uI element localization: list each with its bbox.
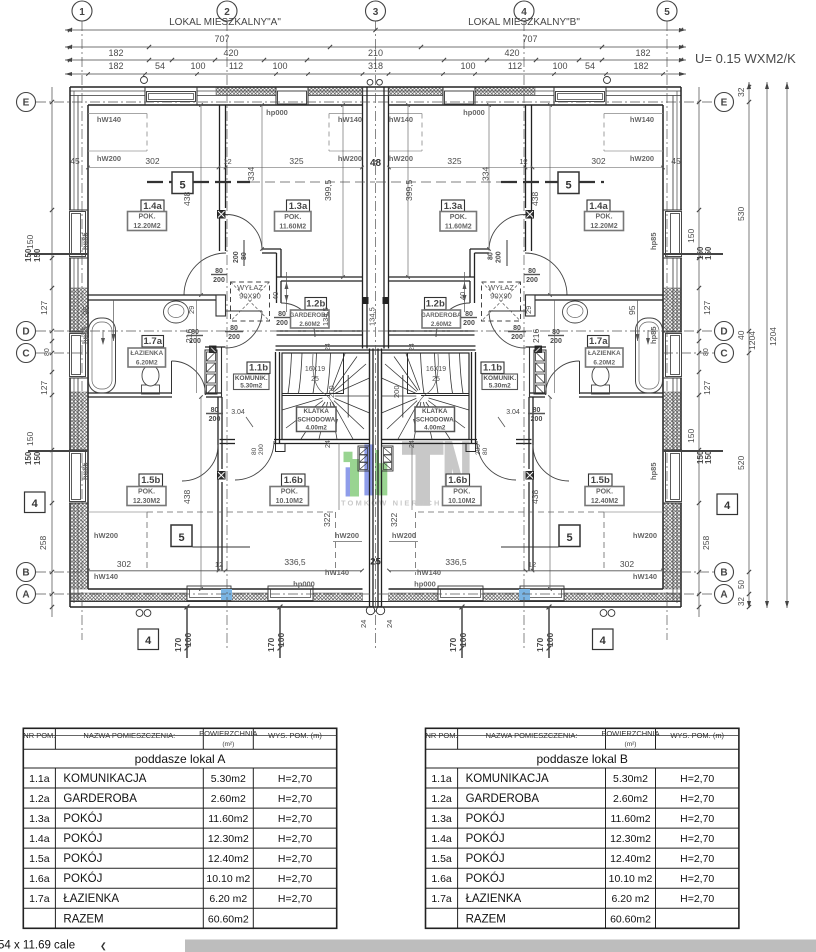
svg-text:182: 182 [108, 48, 123, 58]
svg-text:hW140: hW140 [94, 572, 118, 581]
svg-text:24: 24 [409, 440, 416, 448]
svg-text:3: 3 [373, 7, 379, 18]
garderoba top wall [389, 276, 475, 278]
svg-text:1.3a: 1.3a [289, 201, 308, 212]
svg-text:200: 200 [511, 334, 523, 341]
svg-text:302: 302 [591, 156, 605, 166]
svg-text:11.60M2: 11.60M2 [445, 224, 472, 231]
svg-text:POWIERZCHNIA: POWIERZCHNIA [199, 729, 257, 738]
flue blocks bottom [358, 446, 370, 471]
axis bubbles top [72, 1, 92, 21]
svg-text:E: E [23, 98, 30, 109]
svg-text:1.1b: 1.1b [249, 363, 268, 374]
svg-text:707: 707 [522, 34, 537, 44]
svg-text:200: 200 [258, 444, 265, 455]
room labels [141, 200, 164, 212]
svg-text:438: 438 [182, 192, 192, 206]
svg-text:POKÓJ: POKÓJ [466, 812, 505, 825]
svg-text:H=2,70: H=2,70 [680, 833, 714, 845]
top window hp000 [443, 88, 475, 104]
svg-text:302: 302 [145, 156, 159, 166]
shaft top flue box [535, 346, 542, 353]
blue entry marker [519, 589, 530, 600]
svg-text:2.60M2: 2.60M2 [431, 321, 452, 328]
svg-text:707: 707 [214, 34, 229, 44]
svg-text:80: 80 [488, 252, 495, 260]
svg-text:325: 325 [289, 156, 303, 166]
svg-text:95: 95 [81, 305, 91, 315]
svg-text:200: 200 [550, 338, 562, 345]
svg-text:poddasze lokal B: poddasze lokal B [536, 752, 627, 766]
knee wall dashed contour low [147, 511, 336, 513]
svg-text:hW200: hW200 [392, 531, 416, 540]
svg-text:H=2,70: H=2,70 [680, 893, 714, 905]
flue blocks bottom [382, 446, 394, 471]
blue entry marker [221, 589, 232, 600]
svg-text:1.6b: 1.6b [284, 475, 303, 486]
svg-text:45: 45 [671, 156, 681, 166]
svg-text:1.2a: 1.2a [29, 793, 50, 805]
bottom wall hatch [564, 593, 680, 601]
bath door leaf+arc [171, 361, 173, 394]
sink [563, 301, 588, 323]
svg-text:hW140: hW140 [630, 115, 654, 124]
svg-text:D: D [720, 327, 727, 338]
svg-text:SCHODOWA: SCHODOWA [416, 416, 454, 423]
svg-text:438: 438 [530, 490, 540, 504]
svg-text:150: 150 [704, 450, 713, 464]
svg-text:POK.: POK. [450, 214, 467, 221]
section boxes 4 [25, 492, 46, 513]
bath fixtures: tub [89, 318, 116, 393]
svg-text:112: 112 [508, 61, 522, 71]
svg-text:336,5: 336,5 [284, 557, 306, 567]
svg-text:200: 200 [213, 277, 225, 284]
svg-text:5.30m2: 5.30m2 [489, 383, 511, 390]
vent circle top-left [141, 77, 148, 84]
party wall black boxes [363, 297, 369, 304]
svg-text:29: 29 [524, 306, 533, 314]
svg-text:POWIERZCHNIA: POWIERZCHNIA [601, 729, 659, 738]
svg-text:1.2b: 1.2b [426, 299, 445, 310]
svg-text:50: 50 [737, 580, 746, 589]
wall above shaft/stairs entry [205, 346, 226, 348]
svg-text:1.3a: 1.3a [444, 201, 463, 212]
shaft top flue box [210, 346, 217, 353]
wylaz dashed box [482, 282, 521, 321]
svg-text:150: 150 [686, 229, 696, 243]
svg-text:5: 5 [178, 532, 184, 544]
svg-text:200: 200 [463, 320, 475, 327]
svg-text:100: 100 [183, 633, 193, 647]
wall 1.4a/1.3a x222 [531, 105, 533, 251]
svg-text:hp000: hp000 [463, 108, 485, 117]
svg-text:1.5a: 1.5a [431, 853, 452, 865]
svg-text:200: 200 [228, 334, 240, 341]
svg-text:1.4a: 1.4a [29, 833, 50, 845]
svg-text:24: 24 [325, 440, 332, 448]
svg-text:GARDEROBA: GARDEROBA [63, 793, 137, 805]
door arc to corridor [226, 214, 263, 250]
svg-text:54: 54 [155, 61, 165, 71]
svg-text:POK.: POK. [596, 489, 613, 496]
bottom status bar [185, 940, 816, 952]
bath top wall [88, 294, 226, 296]
svg-text:POK.: POK. [281, 489, 298, 496]
svg-text:B: B [22, 568, 29, 579]
svg-text:1.6b: 1.6b [448, 475, 467, 486]
svg-text:KOMUNIK.: KOMUNIK. [483, 375, 516, 382]
svg-text:C: C [720, 349, 727, 360]
svg-text:(m²): (m²) [222, 741, 234, 748]
door arc into 1.5b [182, 445, 218, 481]
svg-text:1.3a: 1.3a [431, 813, 452, 825]
svg-text:200: 200 [209, 416, 221, 423]
door 1.3a-corridor leaf+arc [489, 310, 526, 312]
left wall hatch [664, 288, 681, 332]
svg-text:POK.: POK. [284, 214, 301, 221]
garderoba left wall [276, 277, 278, 303]
svg-text:80: 80 [44, 348, 51, 356]
svg-text:200: 200 [531, 416, 543, 423]
svg-text:100: 100 [272, 61, 287, 71]
svg-text:325: 325 [447, 156, 461, 166]
svg-text:100: 100 [552, 61, 567, 71]
svg-text:H=2,70: H=2,70 [680, 873, 714, 885]
svg-text:16X19: 16X19 [426, 366, 446, 373]
svg-text:530: 530 [736, 207, 746, 221]
svg-text:25: 25 [370, 557, 381, 568]
svg-text:399,5: 399,5 [323, 179, 333, 201]
sink [164, 301, 189, 323]
svg-text:1.7a: 1.7a [589, 336, 608, 347]
svg-text:182: 182 [635, 48, 650, 58]
wall 1.4a/1.3a x222 [219, 105, 221, 251]
bottom wall hatch [71, 593, 187, 601]
stairs [475, 352, 477, 443]
building outer walls [70, 86, 681, 88]
svg-text:150: 150 [704, 246, 713, 260]
bottom windows/radiators [520, 586, 564, 601]
svg-text:H=2,70: H=2,70 [278, 813, 312, 825]
wylaz dashed box [231, 282, 270, 321]
svg-text:hW140: hW140 [338, 115, 362, 124]
svg-text:POKÓJ: POKÓJ [466, 852, 505, 865]
svg-text:54: 54 [585, 61, 595, 71]
svg-text:134,5: 134,5 [368, 307, 377, 326]
svg-text:90X90: 90X90 [239, 292, 261, 301]
svg-text:16X19: 16X19 [305, 366, 325, 373]
svg-text:1.1a: 1.1a [29, 773, 50, 785]
svg-text:100: 100 [545, 633, 555, 647]
svg-text:200: 200 [526, 277, 538, 284]
svg-text:1.5a: 1.5a [29, 853, 50, 865]
stairs [275, 352, 277, 443]
svg-text:12.30m2: 12.30m2 [610, 833, 651, 845]
svg-text:GARDEROBA: GARDEROBA [466, 793, 540, 805]
wall above shaft/stairs entry [526, 346, 547, 348]
svg-text:24: 24 [359, 620, 368, 628]
svg-text:2.60m2: 2.60m2 [613, 793, 648, 805]
svg-text:60.60m2: 60.60m2 [610, 913, 651, 925]
svg-text:210: 210 [368, 48, 383, 58]
knee wall contour top [88, 113, 147, 115]
svg-text:5: 5 [179, 180, 185, 192]
svg-text:200: 200 [189, 338, 201, 345]
svg-text:hp85: hp85 [649, 232, 658, 250]
svg-text:ŁAZIENKA: ŁAZIENKA [466, 893, 522, 905]
svg-text:hp85: hp85 [81, 462, 90, 480]
svg-text:hp000: hp000 [266, 108, 288, 117]
svg-text:POKÓJ: POKÓJ [466, 832, 505, 845]
svg-text:1: 1 [79, 7, 85, 18]
svg-text:H=2,70: H=2,70 [278, 853, 312, 865]
svg-text:182: 182 [108, 61, 123, 71]
svg-text:1.4a: 1.4a [431, 833, 452, 845]
svg-text:438: 438 [530, 192, 540, 206]
svg-text:12: 12 [528, 560, 536, 569]
svg-text:5.30m2: 5.30m2 [240, 383, 262, 390]
svg-text:hW200: hW200 [630, 154, 654, 163]
vent circles bottom [608, 610, 615, 617]
svg-text:150: 150 [33, 248, 42, 262]
svg-text:1.4a: 1.4a [589, 201, 608, 212]
svg-text:1.5b: 1.5b [591, 475, 610, 486]
svg-text:170: 170 [173, 638, 183, 652]
svg-text:H=2,70: H=2,70 [278, 793, 312, 805]
door hinge marker [218, 211, 226, 219]
shaft with flues [205, 350, 217, 394]
svg-text:LOKAL MIESZKALNY"B": LOKAL MIESZKALNY"B" [468, 17, 580, 28]
top wall hatch [475, 88, 535, 96]
corridor door arc [477, 441, 516, 480]
interior dim lines [200, 105, 202, 295]
svg-text:127: 127 [702, 381, 712, 395]
axis bubbles left [17, 93, 36, 112]
bottom windows/radiators [187, 586, 231, 601]
garderoba door arc [436, 303, 470, 337]
bath door leaf+arc [579, 361, 581, 394]
svg-text:2.60m2: 2.60m2 [211, 793, 246, 805]
left windows [69, 210, 86, 258]
bottom dims [186, 607, 188, 658]
svg-text:D: D [22, 327, 29, 338]
svg-text:200: 200 [327, 385, 336, 398]
svg-text:POK.: POK. [595, 214, 612, 221]
svg-text:POKÓJ: POKÓJ [63, 872, 102, 885]
svg-text:1204: 1204 [747, 331, 757, 350]
door hinge marker [526, 211, 534, 219]
garderoba/bath bottom wall [389, 330, 475, 332]
svg-text:1.5b: 1.5b [141, 475, 160, 486]
svg-text:80: 80 [482, 447, 489, 455]
top window 1 [554, 88, 606, 104]
svg-text:336,5: 336,5 [445, 557, 467, 567]
svg-text:40: 40 [736, 330, 746, 340]
svg-text:POK.: POK. [453, 489, 470, 496]
svg-text:H=2,70: H=2,70 [680, 813, 714, 825]
grid vertical dash-dot lines [81, 21, 83, 640]
left dimension lines [51, 87, 53, 617]
svg-text:RAZEM: RAZEM [63, 913, 103, 925]
svg-text:334: 334 [481, 167, 491, 181]
svg-text:170: 170 [266, 638, 276, 652]
svg-text:5.30m2: 5.30m2 [613, 773, 648, 785]
party top vent circles [367, 79, 373, 85]
axis bubbles right [715, 93, 734, 112]
svg-text:hW140: hW140 [417, 568, 441, 577]
party wall black boxes [383, 297, 389, 304]
svg-text:H=2,70: H=2,70 [278, 833, 312, 845]
svg-text:150: 150 [33, 451, 42, 465]
door arc into 1.4a [525, 253, 567, 295]
svg-text:40: 40 [271, 292, 280, 300]
svg-text:1.1b: 1.1b [483, 363, 502, 374]
svg-text:5: 5 [565, 180, 571, 192]
svg-text:4.00m2: 4.00m2 [306, 424, 328, 431]
svg-text:100: 100 [276, 633, 286, 647]
svg-text:150: 150 [24, 451, 33, 465]
svg-text:5: 5 [566, 532, 572, 544]
drain arrow [647, 330, 649, 343]
svg-text:RAZEM: RAZEM [466, 913, 506, 925]
svg-text:12: 12 [215, 560, 223, 569]
svg-text:80: 80 [251, 447, 258, 455]
svg-text:3.04: 3.04 [506, 409, 520, 416]
top wall hatch [216, 88, 276, 96]
svg-text:KLATKA: KLATKA [422, 408, 448, 415]
top window hp000 [276, 88, 308, 104]
svg-text:2.60M2: 2.60M2 [299, 321, 320, 328]
svg-text:12: 12 [223, 157, 231, 166]
svg-text:25: 25 [432, 376, 440, 383]
vent circles party bottom [366, 606, 374, 614]
svg-text:12.20M2: 12.20M2 [133, 223, 160, 230]
svg-text:H=2,70: H=2,70 [680, 793, 714, 805]
svg-text:hp85: hp85 [81, 232, 90, 250]
section line 5 bottom [171, 525, 192, 547]
toilet [142, 385, 160, 394]
svg-text:12.40m2: 12.40m2 [208, 853, 249, 865]
svg-text:3.04: 3.04 [231, 409, 245, 416]
svg-text:1.2a: 1.2a [431, 793, 452, 805]
svg-text:H=2,70: H=2,70 [680, 773, 714, 785]
svg-text:hW200: hW200 [94, 531, 118, 540]
garderoba top wall [277, 276, 363, 278]
svg-text:150: 150 [686, 429, 696, 443]
svg-text:POKÓJ: POKÓJ [63, 832, 102, 845]
svg-text:SCHODOWA: SCHODOWA [297, 416, 335, 423]
svg-text:B: B [720, 568, 727, 579]
svg-text:4.00m2: 4.00m2 [424, 424, 446, 431]
svg-text:11.60m2: 11.60m2 [610, 813, 650, 825]
svg-text:1.6a: 1.6a [29, 873, 50, 885]
svg-text:11.60m2: 11.60m2 [208, 813, 248, 825]
wall 1.5b/1.6b [217, 397, 219, 571]
svg-text:200: 200 [233, 251, 240, 263]
door arc into 1.5b [533, 445, 569, 481]
svg-text:10.10 m2: 10.10 m2 [609, 873, 653, 885]
svg-text:1.7a: 1.7a [431, 893, 452, 905]
svg-text:10.10 m2: 10.10 m2 [206, 873, 250, 885]
svg-text:hp000: hp000 [293, 580, 315, 589]
svg-text:(m²): (m²) [625, 741, 637, 748]
svg-text:54 x 11.69 cale: 54 x 11.69 cale [0, 940, 75, 952]
svg-text:ŁAZIENKA: ŁAZIENKA [130, 350, 163, 357]
svg-text:182: 182 [633, 61, 648, 71]
wall right of shaft [533, 350, 535, 393]
svg-text:4: 4 [600, 635, 607, 647]
svg-text:hp85: hp85 [649, 326, 658, 344]
left wall hatch [71, 288, 88, 332]
svg-text:258: 258 [38, 536, 48, 550]
svg-text:POK.: POK. [138, 489, 155, 496]
corridor door arc [235, 441, 274, 480]
wall under stairs / 1.6b top [220, 439, 236, 441]
svg-text:32: 32 [736, 87, 746, 97]
svg-text:48: 48 [370, 158, 382, 169]
svg-text:216: 216 [531, 329, 541, 343]
svg-text:100: 100 [458, 633, 468, 647]
svg-text:6.20M2: 6.20M2 [136, 360, 158, 367]
svg-text:90X90: 90X90 [490, 292, 512, 301]
svg-text:150: 150 [24, 248, 33, 262]
svg-text:24: 24 [409, 343, 416, 351]
svg-text:poddasze lokal A: poddasze lokal A [135, 752, 226, 766]
svg-text:95: 95 [627, 305, 637, 315]
svg-text:12.40m2: 12.40m2 [610, 853, 651, 865]
svg-text:6.20 m2: 6.20 m2 [209, 893, 247, 905]
svg-text:12.30m2: 12.30m2 [208, 833, 249, 845]
svg-text:399,5: 399,5 [404, 179, 414, 201]
svg-text:322: 322 [322, 513, 332, 527]
vent circles bottom [136, 610, 143, 617]
svg-text:ŁAZIENKA: ŁAZIENKA [588, 350, 621, 357]
svg-text:80: 80 [241, 252, 248, 260]
svg-text:10.10M2: 10.10M2 [448, 498, 475, 505]
svg-text:U= 0.15 WXM2/K: U= 0.15 WXM2/K [695, 51, 796, 66]
svg-text:29: 29 [187, 306, 196, 314]
svg-text:H=2,70: H=2,70 [680, 853, 714, 865]
1.3a bottom step walls [470, 248, 489, 250]
svg-text:POK.: POK. [138, 214, 155, 221]
svg-text:1.4a: 1.4a [143, 201, 162, 212]
svg-text:A: A [22, 590, 29, 601]
svg-text:127: 127 [39, 381, 49, 395]
svg-text:12.40M2: 12.40M2 [591, 498, 618, 505]
knee wall dashed contour low [416, 511, 605, 513]
svg-text:A: A [720, 590, 727, 601]
svg-text:hp000: hp000 [414, 580, 436, 589]
svg-text:H=2,70: H=2,70 [278, 893, 312, 905]
svg-text:❮: ❮ [100, 942, 107, 951]
1.3a bottom step walls [262, 248, 281, 250]
svg-text:302: 302 [117, 559, 131, 569]
svg-text:4: 4 [32, 498, 39, 510]
svg-text:150: 150 [25, 432, 35, 446]
svg-text:127: 127 [39, 301, 49, 315]
svg-text:POKÓJ: POKÓJ [466, 872, 505, 885]
svg-text:322: 322 [389, 513, 399, 527]
svg-text:302: 302 [620, 559, 634, 569]
svg-text:438: 438 [182, 490, 192, 504]
svg-text:127: 127 [702, 301, 712, 315]
svg-text:258: 258 [701, 536, 711, 550]
interior dim lines [549, 105, 551, 295]
svg-text:40: 40 [458, 292, 467, 300]
svg-text:12.30M2: 12.30M2 [133, 498, 160, 505]
svg-text:hW200: hW200 [335, 531, 359, 540]
